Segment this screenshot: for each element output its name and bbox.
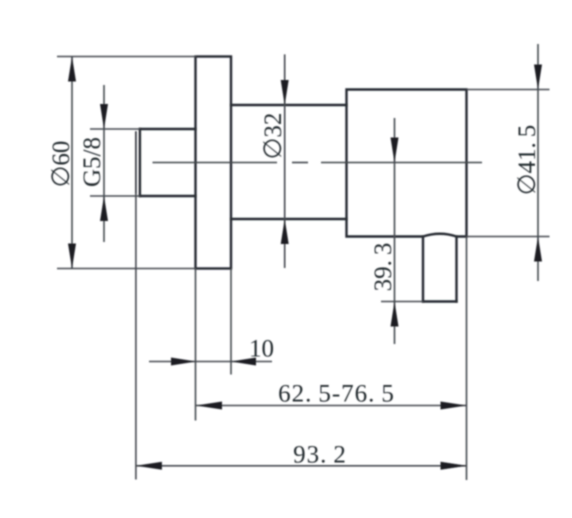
dimension texts	[48, 113, 541, 469]
ext line flange right face down	[230, 269, 232, 375]
ext line flange top (dim D60)	[57, 56, 196, 58]
arrow 39.3 bottom (up, outside)	[391, 302, 399, 327]
shaft bottom edge	[231, 218, 347, 220]
dim line D60	[71, 57, 73, 269]
shaft top edge	[231, 104, 347, 106]
arrowheads	[68, 57, 542, 470]
dim line G5/8	[103, 85, 105, 242]
arrow 10 right (left-pointing, outside)	[231, 358, 256, 366]
arrow 62.5-76.5 left (left-pointing, inside)	[196, 402, 222, 410]
ext line thread top (dim G5/8)	[90, 128, 140, 130]
valve body outline with outlet blend arc	[347, 90, 467, 237]
thin dimension and extension lines	[57, 44, 550, 480]
dim line 39.3	[394, 118, 396, 344]
arrow 39.3 top (down, at centerline)	[391, 138, 399, 163]
outlet right edge	[455, 237, 457, 302]
arrow D41.5 bottom (up, outside)	[534, 237, 542, 262]
arrow 93.2 left (left-pointing, inside)	[136, 462, 162, 470]
dim line 10	[149, 361, 272, 363]
outlet bottom edge	[423, 300, 457, 302]
svg-text:∅32: ∅32	[260, 113, 287, 160]
thread cylinder G5/8 bottom edge	[140, 195, 196, 197]
dim line D41.5	[537, 44, 539, 281]
ext line flange left face down	[195, 269, 197, 421]
ext line body top (dim D41.5)	[467, 89, 550, 91]
svg-text:62. 5-76. 5: 62. 5-76. 5	[278, 381, 395, 408]
thread end cap inner line	[139, 129, 141, 196]
dim line D32	[284, 54, 286, 268]
svg-text:39. 3: 39. 3	[370, 243, 397, 292]
arrow 93.2 right (right-pointing, inside)	[441, 462, 467, 470]
ext line body right face down (dim 93.2)	[466, 237, 468, 481]
part outline group	[136, 57, 467, 302]
arrow G5/8 top (down, outside)	[100, 104, 108, 129]
flange plate rectangle	[196, 57, 232, 269]
dim line 93.2	[136, 465, 467, 467]
thread cylinder G5/8 top edge	[140, 128, 196, 130]
arrow D41.5 top (down, outside)	[534, 65, 542, 90]
ext line body bottom (dim D41.5)	[467, 236, 550, 238]
svg-text:93. 2: 93. 2	[293, 442, 347, 469]
arrow 62.5-76.5 right (right-pointing, inside)	[441, 402, 467, 410]
ext line thread bottom (dim G5/8)	[90, 195, 140, 197]
svg-text:10: 10	[249, 336, 274, 363]
svg-text:∅41. 5: ∅41. 5	[514, 125, 541, 196]
ext line thread left face down (dim 93.2)	[135, 193, 137, 480]
thread end cap outer line	[135, 132, 137, 193]
svg-text:G5/8: G5/8	[79, 137, 106, 187]
arrow D32 bottom (up, outside)	[281, 219, 289, 244]
ext line flange bottom (dim D60)	[57, 268, 196, 270]
arrow D60 bottom (down, inside)	[68, 244, 76, 269]
outlet left edge	[422, 237, 424, 302]
svg-text:∅60: ∅60	[48, 141, 75, 188]
arrow G5/8 bottom (up, outside)	[100, 196, 108, 221]
arrow D60 top (up, inside)	[68, 57, 76, 82]
dim line 62.5-76.5	[196, 405, 467, 407]
centerline axis	[153, 162, 483, 164]
arrow D32 top (down, outside)	[281, 80, 289, 105]
arrow 93.2 right (right-pointing, inside)	[443, 462, 467, 469]
arrow 10 left (right-pointing, outside)	[171, 358, 196, 366]
ext line outlet bottom (dim 39.3)	[381, 301, 423, 303]
